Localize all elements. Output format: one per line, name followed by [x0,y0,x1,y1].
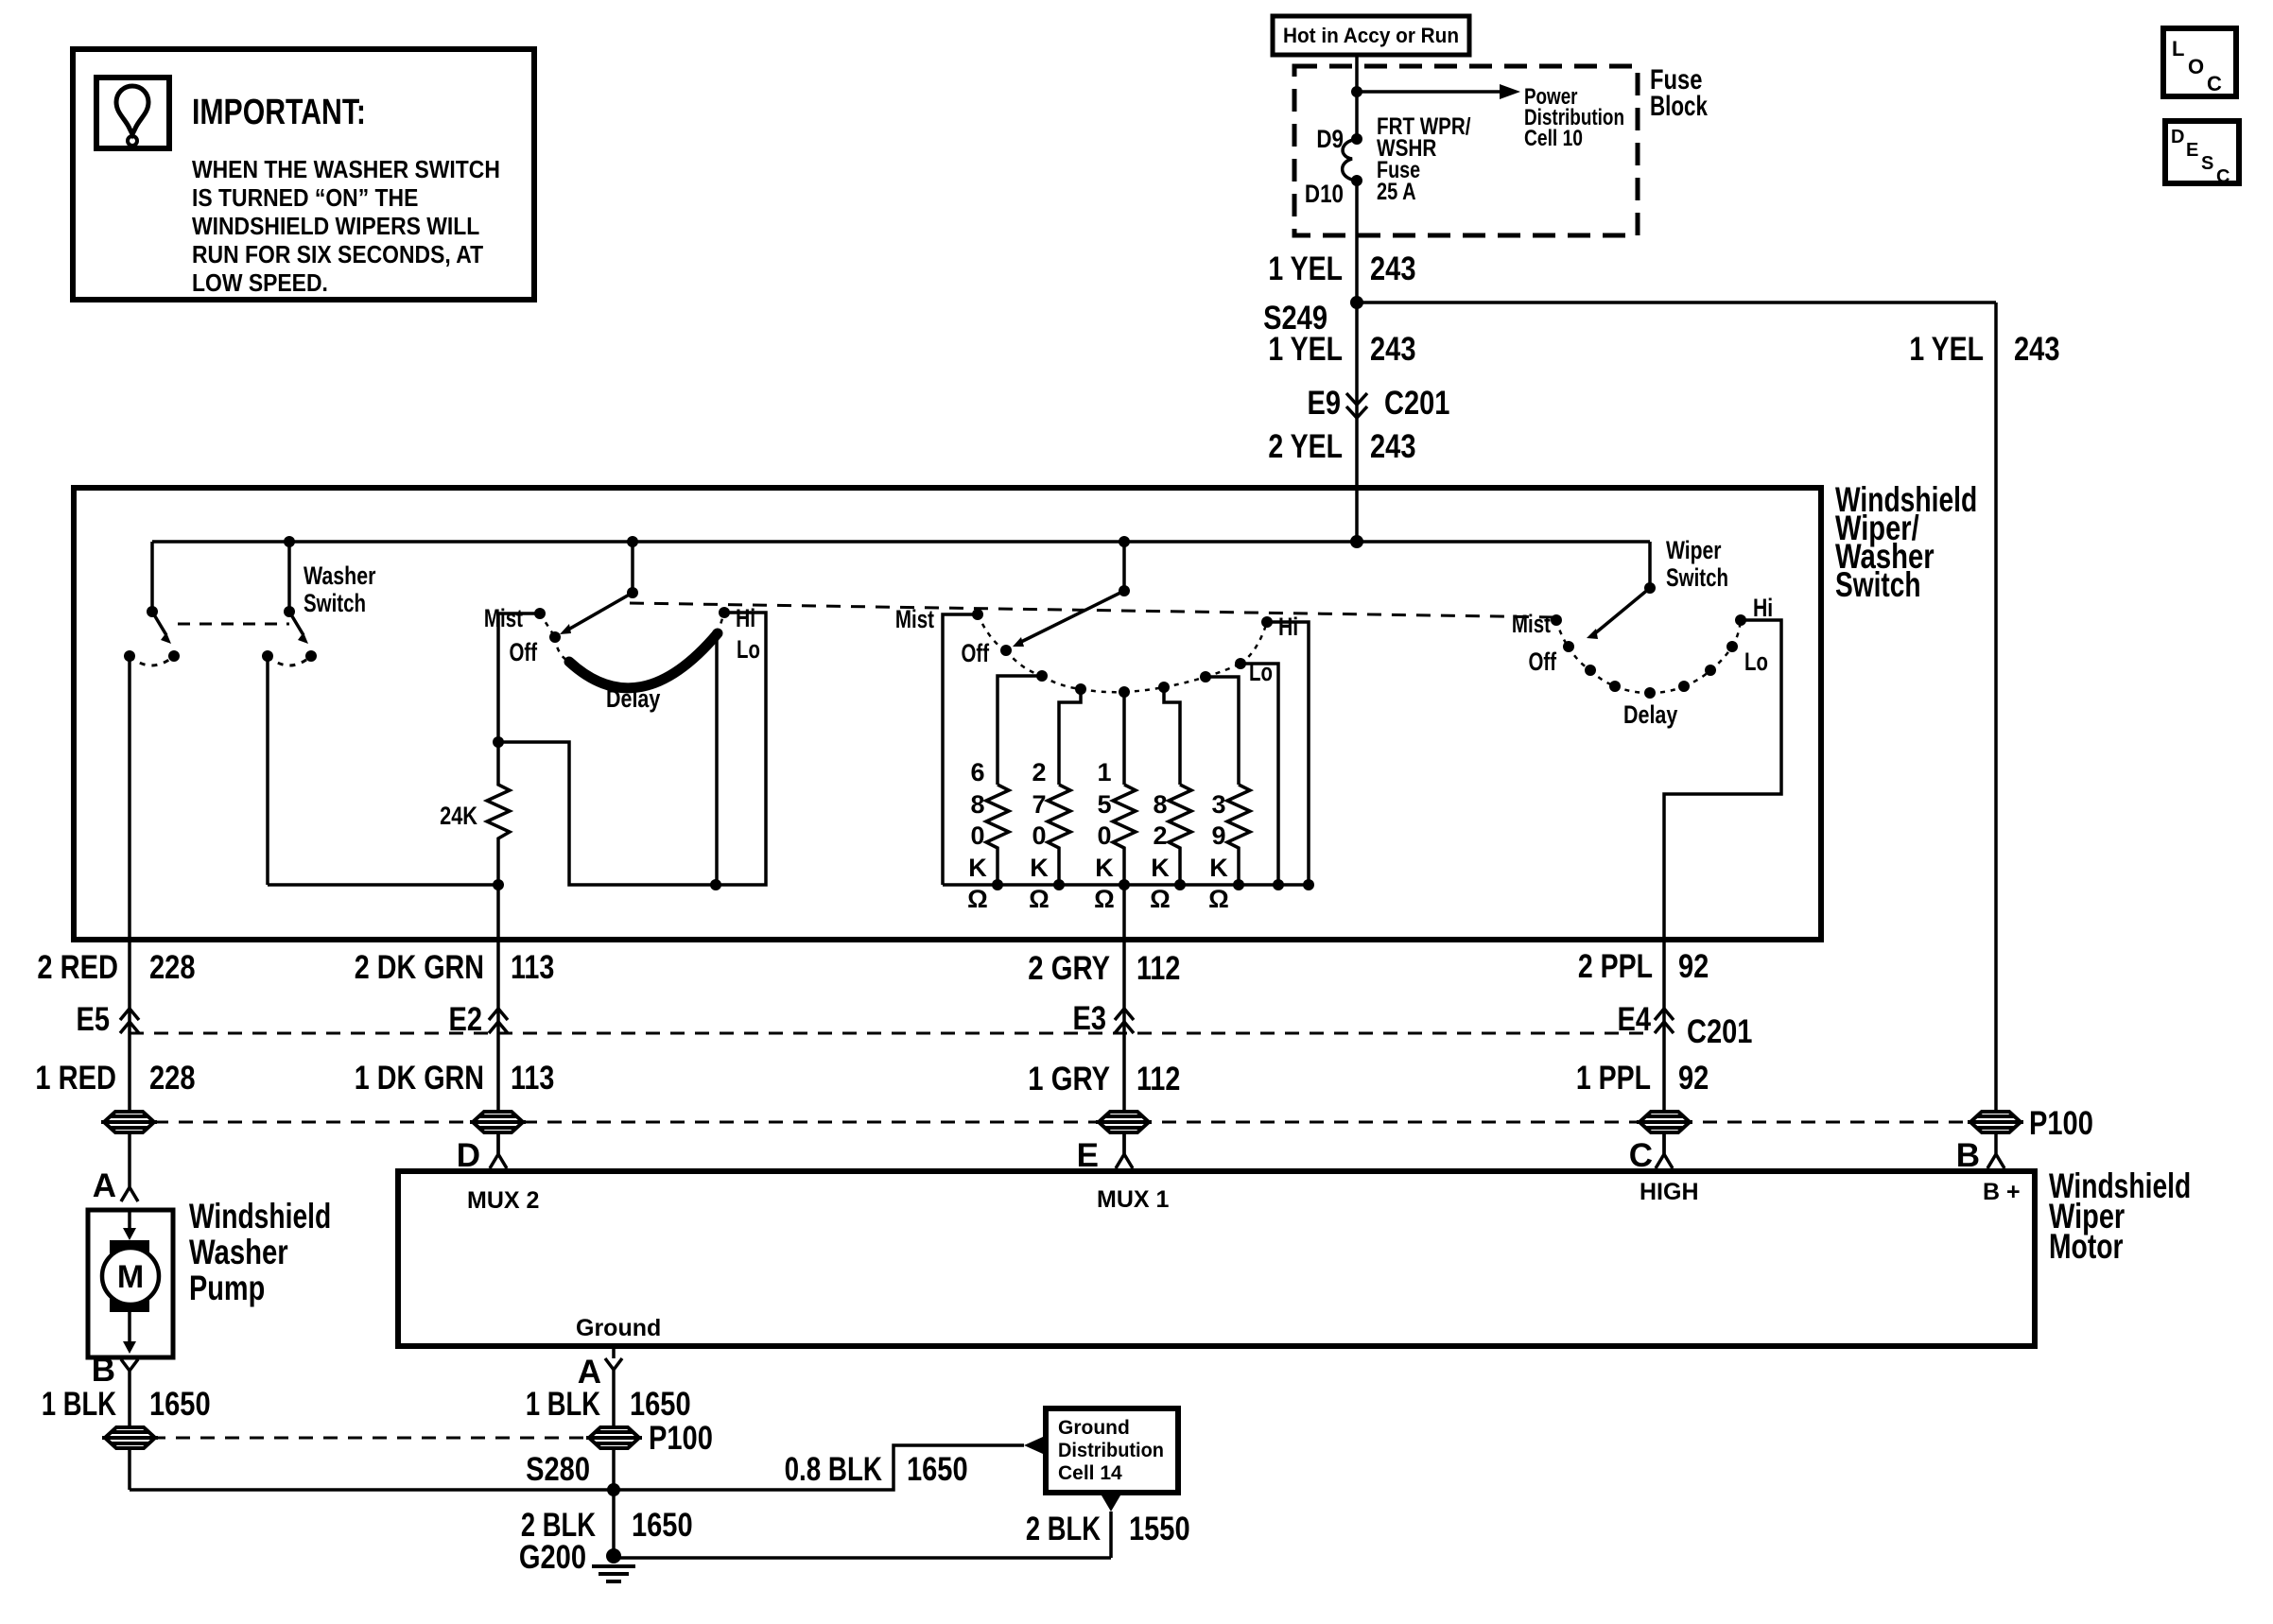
svg-text:HIGH: HIGH [1640,1179,1699,1205]
svg-text:Hi: Hi [1753,594,1773,622]
svg-text:L: L [2172,37,2184,60]
svg-text:2: 2 [1032,758,1046,786]
svg-text:243: 243 [1370,428,1416,465]
svg-text:P100: P100 [2029,1105,2093,1142]
svg-text:K: K [1030,854,1049,882]
svg-text:1 BLK: 1 BLK [526,1386,600,1423]
svg-text:2 YEL: 2 YEL [1268,428,1343,465]
svg-text:G200: G200 [519,1539,586,1576]
svg-text:MUX 1: MUX 1 [1097,1186,1170,1213]
svg-text:3: 3 [1211,790,1225,819]
svg-text:228: 228 [149,949,196,986]
svg-text:D: D [457,1137,480,1174]
svg-text:C: C [2216,166,2230,187]
svg-text:Off: Off [962,639,990,667]
svg-text:MUX 2: MUX 2 [467,1187,539,1214]
svg-text:1650: 1650 [632,1507,693,1544]
svg-text:E: E [2186,140,2198,161]
svg-text:Ground: Ground [576,1315,661,1341]
svg-text:243: 243 [1370,331,1416,368]
svg-text:C201: C201 [1687,1013,1752,1050]
svg-text:0: 0 [1097,821,1111,850]
svg-text:0: 0 [970,821,984,850]
svg-text:Delay: Delay [606,684,660,713]
svg-text:Switch: Switch [304,589,366,617]
svg-text:E3: E3 [1073,1000,1107,1037]
svg-text:2 DK GRN: 2 DK GRN [355,949,484,986]
svg-text:Block: Block [1650,91,1708,122]
svg-text:Off: Off [1529,648,1557,676]
svg-text:1 BLK: 1 BLK [42,1386,116,1423]
svg-text:A: A [93,1167,116,1204]
svg-text:O: O [2188,55,2204,78]
svg-text:Hot in Accy or Run: Hot in Accy or Run [1283,24,1459,47]
svg-text:S280: S280 [526,1451,590,1488]
svg-text:1 YEL: 1 YEL [1909,331,1984,368]
svg-text:9: 9 [1211,821,1225,850]
svg-text:C201: C201 [1384,385,1449,422]
svg-text:25 A: 25 A [1377,179,1416,205]
svg-text:112: 112 [1136,1061,1180,1097]
svg-text:Ω: Ω [1029,885,1050,913]
svg-text:Windshield: Windshield [189,1197,331,1235]
svg-text:Ω: Ω [1150,885,1171,913]
svg-text:Motor: Motor [2049,1227,2124,1266]
svg-text:B: B [92,1352,115,1389]
svg-text:C: C [2207,72,2222,95]
svg-text:243: 243 [2014,331,2060,368]
svg-text:0: 0 [1032,821,1046,850]
svg-text:92: 92 [1678,948,1709,985]
svg-text:WHEN THE WASHER SWITCH: WHEN THE WASHER SWITCH [192,155,500,183]
svg-text:K: K [1095,854,1114,882]
svg-text:E9: E9 [1308,385,1342,422]
svg-text:113: 113 [511,949,554,986]
svg-text:6: 6 [970,758,984,786]
svg-text:D9: D9 [1316,125,1344,153]
svg-text:RUN FOR SIX SECONDS, AT: RUN FOR SIX SECONDS, AT [192,240,483,268]
svg-text:24K: 24K [440,802,477,830]
svg-text:Mist: Mist [484,604,523,632]
svg-text:Cell 10: Cell 10 [1524,126,1583,151]
svg-text:2 GRY: 2 GRY [1028,950,1110,987]
svg-text:Cell 14: Cell 14 [1058,1462,1122,1484]
svg-text:Lo: Lo [1744,648,1768,676]
svg-text:Ω: Ω [1208,885,1229,913]
svg-text:2: 2 [1153,821,1167,850]
svg-text:Ground: Ground [1058,1417,1130,1439]
svg-text:D: D [2171,127,2184,147]
svg-text:Ω: Ω [967,885,988,913]
svg-text:Distribution: Distribution [1058,1440,1164,1461]
svg-text:1 YEL: 1 YEL [1268,251,1343,287]
svg-text:WINDSHIELD WIPERS WILL: WINDSHIELD WIPERS WILL [192,212,479,240]
svg-text:Hi: Hi [736,604,755,632]
svg-text:Washer: Washer [304,561,376,590]
svg-text:Pump: Pump [189,1269,265,1307]
svg-text:92: 92 [1678,1060,1709,1097]
svg-text:Hi: Hi [1278,613,1298,641]
svg-text:2 RED: 2 RED [37,949,118,986]
svg-text:1550: 1550 [1129,1511,1190,1547]
svg-text:1650: 1650 [149,1386,211,1423]
svg-text:P100: P100 [649,1420,713,1457]
svg-text:1 GRY: 1 GRY [1028,1061,1110,1097]
svg-text:Mist: Mist [1512,610,1551,638]
svg-text:243: 243 [1370,251,1416,287]
svg-text:Mist: Mist [895,605,934,633]
svg-text:Off: Off [510,638,538,666]
svg-text:D10: D10 [1305,180,1344,208]
svg-text:C: C [1629,1137,1653,1174]
svg-text:A: A [578,1354,601,1391]
svg-text:228: 228 [149,1060,196,1097]
svg-text:8: 8 [1153,790,1167,819]
svg-text:Switch: Switch [1666,563,1728,592]
svg-text:8: 8 [970,790,984,819]
svg-text:Delay: Delay [1623,700,1677,729]
svg-text:1650: 1650 [630,1386,691,1423]
svg-text:LOW SPEED.: LOW SPEED. [192,268,328,297]
svg-text:S: S [2201,153,2213,174]
svg-text:2 PPL: 2 PPL [1578,948,1653,985]
svg-text:M: M [117,1259,144,1295]
svg-text:5: 5 [1097,790,1111,819]
svg-text:E5: E5 [77,1001,111,1038]
svg-text:IS TURNED “ON” THE: IS TURNED “ON” THE [192,183,418,212]
svg-text:1650: 1650 [907,1451,968,1488]
svg-text:K: K [1209,854,1228,882]
svg-text:E: E [1077,1137,1099,1174]
svg-text:1 YEL: 1 YEL [1268,331,1343,368]
svg-text:1: 1 [1097,758,1111,786]
svg-text:B: B [1956,1137,1980,1174]
svg-text:Washer: Washer [189,1233,288,1271]
svg-text:112: 112 [1136,950,1180,987]
svg-text:IMPORTANT:: IMPORTANT: [192,93,366,132]
svg-text:B +: B + [1983,1179,2021,1205]
svg-text:113: 113 [511,1060,554,1097]
svg-text:1 DK GRN: 1 DK GRN [355,1060,484,1097]
svg-text:Switch: Switch [1835,565,1921,604]
svg-text:Lo: Lo [737,635,760,664]
svg-text:2 BLK: 2 BLK [1026,1511,1101,1547]
svg-text:1 RED: 1 RED [35,1060,116,1097]
svg-text:0.8 BLK: 0.8 BLK [785,1451,882,1488]
svg-text:Wiper: Wiper [1666,536,1722,564]
svg-text:1 PPL: 1 PPL [1576,1060,1651,1097]
svg-text:Ω: Ω [1094,885,1115,913]
svg-text:7: 7 [1032,790,1046,819]
svg-text:K: K [968,854,987,882]
svg-text:K: K [1151,854,1170,882]
